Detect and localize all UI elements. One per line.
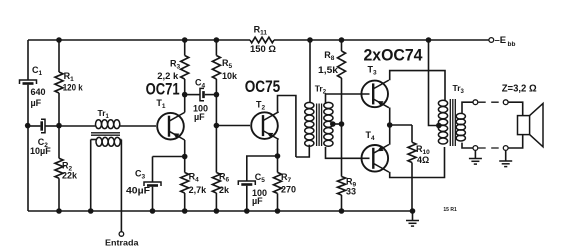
label R7: [281, 172, 292, 184]
wire Tr1 primary leads: [59, 125, 156, 127]
wire T2 collector: [278, 96, 296, 158]
terminal speaker top: [503, 100, 508, 105]
label Entrada: [105, 238, 139, 247]
svg-text:1,5k: 1,5k: [318, 65, 339, 75]
transformer Tr1 core: [91, 133, 120, 135]
label Tr3: [453, 83, 465, 95]
speaker LS: [518, 104, 544, 147]
wire C4 right: [205, 94, 217, 96]
svg-text:10µF: 10µF: [30, 146, 51, 156]
wire C2 branch: [28, 125, 59, 127]
node bottom rail / R6: [214, 208, 220, 214]
label R10: [416, 144, 430, 156]
label R6: [219, 172, 230, 184]
node left rail / C2: [25, 123, 31, 129]
wire T4 collector: [390, 147, 445, 178]
label T2: [256, 100, 266, 112]
resistor R8: [338, 40, 346, 124]
label R11: [254, 25, 268, 37]
label R1 value: [63, 83, 84, 93]
wire Tr3 secondary bottom lead: [462, 143, 473, 148]
transformer Tr3 primary coil: [438, 100, 447, 144]
label R9 value: [346, 187, 356, 197]
label C1 value: [31, 87, 46, 108]
transformer Tr2 secondary coil: [324, 102, 333, 146]
svg-text:µF: µF: [252, 196, 263, 206]
transistor T1: [157, 112, 185, 140]
wire R10 top: [390, 125, 412, 142]
label -Ebb: [495, 35, 516, 48]
label C4: [195, 78, 206, 90]
wire T1 emitter: [184, 140, 186, 157]
label R2 value: [62, 171, 78, 181]
transformer Tr2 primary coil: [305, 102, 314, 146]
svg-text:Z=3,2 Ω: Z=3,2 Ω: [502, 83, 537, 94]
wire C4 left: [185, 94, 200, 96]
wire speaker top lead: [508, 102, 523, 115]
wire R5 to T2 base junction: [215, 95, 217, 126]
ground Tr3 secondary: [469, 151, 482, 165]
wire bottom ground rail: [28, 210, 413, 212]
node T1 emitter / C3 / R4: [182, 154, 188, 160]
transformer Tr2 core: [317, 104, 322, 147]
wire C5 to ground rail: [246, 186, 248, 211]
wire Tr1 secondary right lead: [120, 140, 122, 232]
wire T2 base: [216, 125, 250, 127]
terminal speaker bottom: [503, 146, 508, 151]
wire C3 to ground rail: [152, 187, 154, 211]
node R5/R6/T2 base: [214, 123, 220, 129]
svg-text:10k: 10k: [222, 71, 238, 81]
svg-text:µF: µF: [194, 112, 205, 122]
label R9: [346, 177, 357, 189]
label T3: [368, 65, 378, 77]
terminal -Ebb: [489, 38, 494, 43]
terminal Entrada: [119, 232, 124, 237]
label Tr1: [98, 108, 110, 120]
node R1/R2/C2/Tr1: [56, 123, 62, 129]
label C4 value: [193, 104, 208, 123]
node bottom rail / R10 / ground: [410, 208, 416, 214]
wire T1 collector: [184, 95, 186, 113]
svg-text:Entrada: Entrada: [105, 238, 139, 247]
resistor R3: [181, 40, 189, 95]
node top rail / R5: [214, 37, 220, 43]
svg-text:4Ω: 4Ω: [417, 155, 429, 165]
capacitor C5: [238, 181, 255, 186]
svg-text:150 Ω: 150 Ω: [250, 44, 276, 54]
label R4 value: [189, 185, 208, 195]
wire top supply rail: [28, 39, 489, 41]
wire T4 emitter: [389, 125, 391, 145]
ground main: [406, 211, 419, 226]
transformer Tr1 secondary coil: [96, 137, 120, 146]
svg-text:15 R1: 15 R1: [443, 207, 457, 213]
wire Tr2 secondary top lead to T3 base: [326, 94, 370, 104]
svg-text:2,2 k: 2,2 k: [157, 71, 179, 81]
transistor T2: [251, 112, 279, 140]
label R1: [64, 71, 75, 83]
label 2xOC74: [364, 47, 424, 65]
label R8 value: [318, 65, 339, 75]
transformer Tr3 core: [450, 99, 455, 146]
node top rail / R1: [56, 37, 62, 43]
node bottom rail / Tr1: [88, 208, 94, 214]
wire Tr2 primary top lead: [309, 40, 311, 103]
terminal Tr3 secondary bottom: [473, 146, 478, 151]
label C2 value: [30, 146, 51, 156]
svg-text:OC71: OC71: [146, 80, 180, 98]
resistor R11: [250, 37, 274, 43]
wire T3 collector: [390, 71, 445, 101]
label R10 value: [417, 155, 429, 165]
node bottom rail / C5: [244, 208, 250, 214]
wire dashed link top: [478, 101, 503, 103]
ground speaker: [499, 150, 512, 166]
label OC75: [245, 78, 281, 96]
label C5 value: [252, 188, 267, 206]
svg-text:OC75: OC75: [245, 78, 281, 96]
svg-text:2k: 2k: [219, 185, 230, 195]
node C4 / R5: [214, 92, 220, 98]
wire Tr2 secondary bottom lead to T4 base: [326, 147, 370, 158]
label T1: [156, 98, 166, 110]
resistor R1: [55, 40, 63, 126]
label R3: [170, 59, 181, 71]
svg-text:bb: bb: [508, 41, 516, 48]
svg-text:40µF: 40µF: [126, 186, 151, 196]
node top rail / R3: [182, 37, 188, 43]
label R11 value: [250, 44, 276, 54]
transistor T3: [361, 80, 388, 108]
wire dashed link bottom: [478, 147, 503, 149]
node T3/T4 emitters / R10: [387, 122, 393, 128]
transformer Tr1 primary coil: [96, 120, 120, 129]
label R7 value: [281, 185, 296, 195]
wire emitter to C3: [153, 157, 185, 183]
svg-text:33: 33: [346, 187, 356, 197]
node Tr3 center tap: [436, 123, 442, 129]
node bottom rail / R9: [339, 208, 345, 214]
capacitor C4: [200, 88, 205, 100]
node top rail / Ebb feed: [426, 37, 432, 43]
wire speaker bottom lead: [508, 135, 523, 148]
svg-text:2xOC74: 2xOC74: [364, 47, 424, 65]
wire T3 emitter: [389, 108, 391, 126]
wire Tr2 primary bottom lead: [296, 145, 309, 157]
wire Tr3 center tap feed: [429, 40, 439, 126]
wire left rail: [27, 40, 29, 211]
node top rail / Tr2 primary: [307, 37, 313, 43]
node Tr2 center tap: [330, 121, 336, 127]
node top rail / R8: [339, 37, 345, 43]
svg-text:270: 270: [281, 185, 296, 195]
label R4: [189, 172, 200, 184]
label T4: [366, 130, 376, 142]
resistor R2: [55, 126, 63, 211]
label C3: [135, 169, 146, 181]
svg-text:22k: 22k: [62, 171, 78, 181]
label Tr2: [315, 84, 327, 96]
svg-text:120 k: 120 k: [63, 83, 84, 93]
resistor R4: [181, 157, 189, 212]
capacitor C2: [40, 119, 45, 132]
label C1: [32, 65, 43, 77]
transformer Tr3 secondary coil: [456, 113, 465, 141]
resistor R5: [212, 40, 220, 95]
node bottom rail / R7: [275, 208, 281, 214]
transistor T4: [362, 145, 390, 173]
label 15R1: [443, 207, 457, 213]
label R6 value: [219, 185, 230, 195]
resistor R6: [212, 126, 220, 212]
svg-text:2,7k: 2,7k: [189, 185, 208, 195]
label C3 value: [126, 186, 151, 196]
label R2: [62, 161, 73, 173]
wire Tr1 secondary left lead: [91, 140, 97, 212]
wire Tr2 center tap: [333, 123, 342, 125]
terminal Tr3 secondary top: [473, 100, 478, 105]
label R5 value: [222, 71, 238, 81]
capacitor C3: [144, 182, 161, 187]
label Z=3,2: [502, 83, 537, 94]
wire emitter to C5: [247, 156, 278, 181]
node bottom rail / R2: [56, 208, 62, 214]
label C2: [38, 137, 49, 149]
svg-text:–E: –E: [495, 35, 507, 46]
label C5: [255, 172, 266, 184]
svg-text:640: 640: [31, 87, 46, 97]
node bottom rail / C3: [150, 208, 156, 214]
label R8: [324, 50, 335, 62]
resistor R9: [338, 124, 346, 211]
node R3 / C4 / T1 collector: [182, 92, 188, 98]
svg-text:µF: µF: [31, 98, 42, 108]
resistor R10: [408, 142, 416, 211]
node bottom rail / R4: [182, 208, 188, 214]
label R3 value: [157, 71, 179, 81]
resistor R7: [274, 156, 282, 211]
capacitor C1: [20, 80, 37, 85]
node T2 emitter / C5 / R7: [275, 153, 281, 159]
wire T2 emitter: [277, 139, 279, 156]
node center tap / R8 / R9: [339, 121, 345, 127]
label OC71: [146, 80, 180, 98]
label R5: [222, 58, 233, 70]
wire Tr3 secondary top lead: [462, 102, 473, 113]
